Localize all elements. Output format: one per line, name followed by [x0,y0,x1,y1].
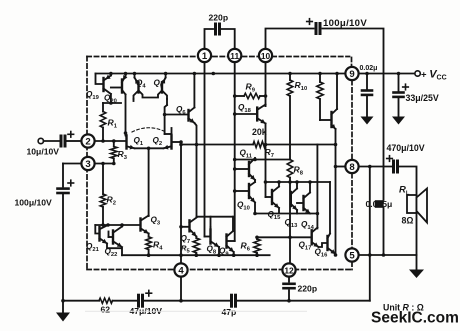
wire Q22 collector to rail [121,225,123,227]
wire pin11 vertical [234,62,236,241]
node rail-bottom-R6 [255,253,259,257]
resistor R7 20k [253,142,266,148]
node rail-Q4 [133,72,137,76]
wire down to 100u cap [62,164,64,187]
svg-text:Q14: Q14 [301,220,315,231]
node R7right-Q18e [264,143,268,147]
wire Q22 base stub [109,236,112,238]
matched-pair dashed arc over Q1 Q2 [132,128,166,132]
node Q11c-wire [253,158,257,162]
wire pin10 vertical to Q18 collector [265,62,267,106]
plus sign of 470u/10V [387,158,393,160]
transistor Q4 [137,83,139,93]
node Q7base-pin4 [179,225,183,229]
resistor R1 [102,103,104,112]
IC internal dashed boundary box (top-right corner drop to pin 9) [351,58,353,68]
node rail-Q6c [193,72,197,76]
svg-text:62: 62 [101,305,111,315]
capacitor 100u/10V (left, pin3 decoupling) [58,187,69,190]
node R3-pin3wire [112,162,116,166]
plus sign of left 100u/10V [68,182,74,184]
svg-text:220p: 220p [298,284,318,294]
wire Q18 collector join [265,105,267,107]
terminal +Vcc open circle [415,71,420,76]
wire Q14 base stub [297,202,302,204]
scan artifact line [85,310,307,313]
wire trio emitter rail [255,213,317,215]
node rail-bottom-Q9e [232,253,236,257]
wire Q15 base [266,196,271,198]
wire Q2 base to pin4 vertical [173,141,181,143]
node rail-bottom-R5 [195,253,199,257]
wire Q8 collector up [210,217,212,227]
svg-text:R2: R2 [107,195,116,207]
node pin8-out [368,165,372,169]
transistor Q14 [302,196,304,210]
wire R7 node down to Q15 chain [265,145,267,198]
wire mirror base bus [103,102,121,104]
capacitor 47p (series) [230,295,233,306]
svg-text:Q2: Q2 [153,136,163,147]
node y184-Q14 [308,180,312,184]
node rail-Q19e [109,72,113,76]
wire Q13 emitter down [296,210,298,214]
node y184-R8 [288,180,292,184]
node rail-res [318,72,322,76]
capacitor 10u/10V (input coupling) [60,136,63,146]
wire pin4 vertical (feedback pin) [180,142,182,263]
svg-text:5: 5 [349,250,355,261]
wire Q6 base tap [165,114,188,116]
wire Q12 emitter down join driver rail [335,129,337,255]
svg-text:Q19: Q19 [86,90,100,101]
transistor Q11 [248,162,250,176]
IC internal dashed boundary box (bottom edge) [87,269,352,271]
capacitor 0.015u (zobel, on vertical) [375,200,384,208]
wire pin3 internal [95,163,114,165]
svg-text:47p: 47p [222,307,237,317]
svg-text:Q1: Q1 [134,136,144,147]
wire x317 vertical [316,145,318,229]
svg-text:20k: 20k [252,127,267,137]
svg-text:4: 4 [178,265,184,276]
plus sign of 100u/10V [307,21,313,23]
svg-text:10μ/10V: 10μ/10V [27,147,60,157]
svg-text:0.015μ: 0.015μ [366,199,393,209]
wire Q5 collector down [166,99,168,105]
plus sign of 10u/10V [68,133,74,135]
transistor Q15 [271,190,273,204]
wire pin9 to +Vcc terminal [359,73,415,75]
wire Q9 collector up [232,217,234,231]
resistor R6 [256,237,258,239]
transistor Q20 [121,80,123,93]
node mirror-Q21c [106,223,110,227]
node trio-rail-right [316,212,320,216]
svg-text:1: 1 [202,51,208,62]
wire Q20 base from Q19 [111,87,121,89]
wire 220p to bottom wire [288,291,290,301]
wire 220p to pin 11 [222,29,235,49]
node rail-13 [212,72,216,76]
ground below speaker [409,270,424,279]
wire 100u down to bottom wire [62,194,64,301]
speaker RL 8ohm (driver box) [407,195,417,213]
svg-text:R3: R3 [118,149,128,161]
internal top supply rail [96,73,346,75]
node y184-left [264,180,268,184]
tail wire down to Q3 [148,148,150,216]
svg-text:11: 11 [230,51,239,61]
node R9-pin11 [233,94,237,98]
wire Q16 collector up [329,182,331,234]
svg-text:R10: R10 [295,80,308,92]
pin 2 (IC terminal) [81,134,94,147]
wire Q13 collector up [296,182,298,189]
node pin12-Q17base [288,236,292,240]
node Q11base-pin11 [233,167,237,171]
node Q6base-tap [163,113,167,117]
transistor Q21 [98,227,100,241]
transistor Q17 [311,230,313,244]
node R6-top [255,236,259,240]
wire Q20 emitter to rail [125,74,127,77]
wire Q11 collector to R8-top wire [254,158,256,160]
wire mirror base rail [95,224,139,226]
pin 9 (IC terminal) [345,67,358,80]
wire Q21 emitter run [107,244,122,256]
wire Q12 collector to rail [336,74,338,110]
wire and capacitor 0.02u to ground [366,74,368,90]
pin 8 (IC terminal) [345,160,358,173]
plus sign of 47u/10V [146,292,152,294]
wire Q6 collector to rail [193,74,195,108]
capacitor 470u/10V (series output) [392,161,395,172]
svg-text:10: 10 [261,51,271,61]
wire Q6 emitter down long [195,123,197,217]
ground bottom-left [56,313,70,322]
svg-text:3: 3 [85,159,90,170]
transistor Q16 [326,236,328,250]
wire driver rail right [266,144,336,146]
node R1-pin2wire [101,139,105,143]
svg-text:R8: R8 [294,165,304,177]
resistor inner (pin9 column) [319,74,321,83]
transistor Q2 [170,135,172,148]
node Q16e-pin5wire [334,253,338,257]
svg-text:33μ/25V: 33μ/25V [406,93,439,103]
node mirror-Q22c [120,223,124,227]
wire Q4-Q5 base tie [140,92,162,98]
svg-text:Q18: Q18 [238,103,252,114]
wire Q10 base [235,190,248,192]
capacitor 47u/10V (series feedback) [137,295,140,306]
svg-text:Q21: Q21 [86,242,100,253]
node out-pin5 [368,253,372,257]
wire input to 10u cap [44,140,59,142]
transistor Q13 [290,192,292,206]
resistor R10 [289,74,291,81]
node bottomwire-gnd [61,299,65,303]
capacitor 33u/25V wire [398,74,400,92]
wire Q9 base [228,240,235,242]
wire Q1 base from pin 2 [95,140,126,142]
transistor Q10 [248,184,250,198]
resistor R9 [235,95,244,97]
svg-text:Q13: Q13 [285,218,299,229]
wire Q18 base from pin11 line [235,113,256,115]
node Q10base-pin11 [233,189,237,193]
wire Q7 base from pin4 line [181,226,188,228]
pin 10 (IC terminal) [259,49,272,62]
svg-text:R1: R1 [108,118,118,130]
node pin4-driver-rail [179,143,183,147]
pin 5 (IC terminal) [345,248,358,261]
svg-text:Q11: Q11 [240,149,253,160]
node Q6e-rail [195,143,199,147]
wire pin3 left [63,163,80,165]
wire pin8 to 470u cap [359,166,392,168]
svg-text:R6: R6 [241,241,251,253]
wire Q5 emitter to rail [165,74,167,78]
wire speaker bottom to ground [416,213,418,270]
plus sign of 33u/25V [403,86,409,88]
pin 12 (IC terminal) [282,263,295,276]
wire 10u to pin 2 [67,140,80,142]
wire Q3 collector to tail [148,215,150,218]
node bottomwire-pin4 [179,299,183,303]
svg-text:R9: R9 [246,82,256,94]
node vcc-cap1 [365,72,369,76]
wire Q19 collector down to base bus [110,94,112,103]
wire pin11 to R8 top [235,159,290,161]
bottom feedback wire [63,300,99,302]
wire mirror loop left [95,225,98,234]
transistor Q3 [139,219,141,231]
wire Q15 collector up [278,182,280,187]
IC internal dashed boundary box (left edge) [86,57,88,270]
wire 47p to pin12 node and feedback corner [238,300,370,302]
svg-text:SeekIC.com: SeekIC.com [371,310,459,327]
node rail-Q5e [164,72,168,76]
wire Q12 base [320,119,330,121]
svg-text:R5: R5 [181,244,190,255]
resistor 62 (feedback) [99,298,113,303]
wire Q20 collector down to Q1 collector [125,95,127,136]
svg-text:2: 2 [85,136,90,147]
svg-text:Q10: Q10 [237,201,250,212]
wire Q9 emitter to rail [233,252,235,255]
svg-text:470μ/10V: 470μ/10V [387,143,425,153]
node pin8-tap [334,165,338,169]
wire Q7/Q8 collector tie [197,216,234,218]
input terminal circle [38,138,43,143]
ground below 0.02u cap [361,117,374,125]
wire pin1 to 220p loop [205,29,214,49]
node tail-emitters [147,147,151,151]
svg-text:R4: R4 [153,240,163,252]
wire 62 to 47u [113,300,137,302]
wire Q2 collector link [165,133,172,135]
wire Q18 emitter down to R7 [265,124,267,145]
node R2-pin3wire [101,162,105,166]
wire R7 left run to pin4 line [181,144,253,146]
transistor Q5 [161,83,163,93]
wire Q8 emitter to rail [218,247,220,255]
svg-text:8Ω: 8Ω [402,216,414,226]
wire Q10 collector tie [254,180,256,182]
transistor Q8 [209,230,211,244]
wire pin5 to speaker-bottom node [359,254,417,256]
resistor R5 [193,238,199,253]
transistor Q6 [187,110,189,121]
wire pin8 internal tap [336,166,346,168]
resistor R4 [148,234,150,237]
svg-text:100μ/10V: 100μ/10V [15,198,53,208]
svg-text:Q5: Q5 [154,79,164,90]
wire Q10 emitter down [254,203,256,214]
speaker horn cone [417,189,428,223]
node driver-rail-x335 [334,143,338,147]
svg-text:Q16: Q16 [315,248,329,259]
wire Q17 emitter to Q16 base [319,243,327,247]
node rail-R10 [288,72,292,76]
wire 33u to ground [398,98,400,117]
node y184-Q13 [295,180,299,184]
emitter rail of Q1 Q2 [135,147,164,149]
node rail-Q20e [124,72,128,76]
IC internal dashed boundary box (top edge) [87,56,350,58]
resistor R8 [287,160,293,178]
pin 4 (IC terminal) [174,263,187,276]
svg-text:12: 12 [284,265,294,275]
wire left ground stem [62,301,64,313]
wire pin1 vertical down to Q8 base [204,62,206,236]
transistor Q18 [256,108,258,121]
vertical wire pin8-node down to pin5-node and feedback corner [369,167,371,301]
svg-text:0.02μ: 0.02μ [360,65,378,72]
svg-text:220p: 220p [209,13,229,23]
wire pin10 up to 100u rail [266,29,314,50]
svg-text:RL: RL [399,185,410,197]
svg-text:100μ/10V: 100μ/10V [323,18,367,29]
IC internal dashed boundary box (right edge) [351,81,353,270]
pin 11 (IC terminal) [228,49,241,62]
wire y184 collector rail [266,181,331,183]
pin 1 (IC terminal) [198,49,211,62]
node mirror-R2 [101,223,105,227]
resistor R3 [113,141,115,147]
node bottomwire-pin12 [287,299,291,303]
wire Q4 emitter to rail [134,74,136,78]
wire pin12 vertical lower with 220p [288,277,290,282]
wire Q17 base rail from R6 [257,236,310,238]
transistor Q9 [225,235,227,248]
wire 0.015u down to output node [383,208,385,255]
node rail-bottom-R4 [147,253,151,257]
node rail-bottom-Q8e [217,253,221,257]
wire 470u to speaker top [400,167,417,197]
node trio-rail-Q10e [253,212,257,216]
svg-text:+ VCC: + VCC [421,69,447,82]
wire Q19 emitter to rail [110,74,112,76]
transistor Q22 [112,231,114,244]
node R9-pin10 [264,94,268,98]
node boot-pin5 [382,253,386,257]
node Q1c-y133 [124,131,128,135]
wire Q8 base [205,236,210,238]
node pin11-R8wire [233,158,237,162]
wire Q14 collector up [309,182,311,193]
capacitor 220p (top, pins 1-11) [214,24,217,34]
node y184-Q15 [277,180,281,184]
pin 3 (IC terminal) [81,157,94,170]
wire mirror left loop [96,74,103,85]
svg-text:Q3: Q3 [151,216,161,227]
transistor Q19 [102,78,104,91]
wire Q11 base [235,168,248,170]
node Q18base-pin11 [233,112,237,116]
wire 100u to right, down long vertical [323,29,384,201]
node rail-bottom-pin4 [179,253,183,257]
resistor R2 [102,164,104,195]
transistor Q1 [125,135,127,148]
transistor Q12 (top driver) [330,112,332,127]
svg-text:8: 8 [349,162,355,173]
node R3-pin2wire [112,139,116,143]
ground below 33u/25V [392,117,405,125]
transistor Q7 [188,220,190,231]
svg-text:9: 9 [349,69,354,80]
node Q2base-pin4 [179,140,183,144]
capacitor 33u/25V plates [394,91,404,94]
capacitor 100u/10V (top bootstrap) [315,24,318,34]
wire Q15 emitter down [278,208,280,214]
svg-text:Q17: Q17 [299,241,312,252]
node rail-Q12c [335,72,339,76]
internal bottom emitter rail [122,254,270,256]
capacitor 220p (pin12 to feedback line) [284,282,295,285]
node mirror-bus [109,101,113,105]
wire Q4 collector to Q1 collector node [133,99,135,101]
wire 47u to 47p [145,300,230,302]
node vcc-cap2 [397,72,401,76]
